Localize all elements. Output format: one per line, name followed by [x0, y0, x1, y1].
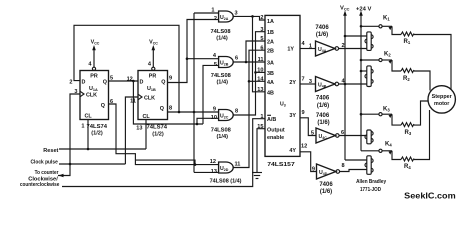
svg-text:6: 6: [110, 99, 113, 105]
svg-text:74LS08 (1/4): 74LS08 (1/4): [210, 179, 242, 185]
svg-text:1: 1: [81, 124, 84, 130]
svg-text:K4: K4: [385, 141, 392, 147]
svg-text:CLK: CLK: [86, 93, 97, 99]
svg-text:PR: PR: [90, 74, 98, 80]
svg-text:11: 11: [130, 99, 136, 105]
svg-text:9: 9: [169, 76, 172, 82]
svg-text:R4: R4: [404, 164, 411, 170]
svg-text:8: 8: [169, 106, 172, 112]
svg-text:Q: Q: [161, 79, 165, 85]
svg-text:2: 2: [342, 43, 345, 49]
svg-text:1: 1: [309, 43, 312, 49]
svg-text:3: 3: [260, 27, 263, 33]
svg-text:1Y: 1Y: [287, 46, 294, 52]
svg-text:K3: K3: [383, 107, 390, 113]
svg-text:3Y: 3Y: [289, 113, 296, 119]
svg-text:5: 5: [110, 76, 113, 82]
svg-text:3: 3: [235, 11, 238, 17]
svg-text:2: 2: [69, 79, 72, 85]
svg-text:8: 8: [235, 109, 238, 115]
svg-text:3B: 3B: [267, 71, 274, 77]
svg-text:11: 11: [258, 57, 264, 63]
svg-text:12: 12: [301, 143, 307, 149]
svg-text:(1/6): (1/6): [317, 120, 329, 126]
svg-text:3: 3: [309, 79, 312, 85]
svg-text:2B: 2B: [267, 49, 274, 55]
svg-text:15: 15: [257, 124, 263, 130]
svg-text:(1/6): (1/6): [316, 32, 328, 38]
svg-text:CL: CL: [85, 114, 93, 120]
svg-text:7406: 7406: [319, 182, 333, 188]
svg-text:5: 5: [260, 36, 263, 42]
svg-text:R2: R2: [403, 76, 410, 82]
svg-text:13: 13: [257, 87, 263, 93]
svg-text:Output: Output: [267, 128, 285, 134]
svg-text:K1: K1: [383, 16, 390, 22]
svg-text:(1/4): (1/4): [216, 80, 228, 86]
svg-text:Q: Q: [103, 79, 107, 85]
svg-text:4B: 4B: [267, 90, 274, 96]
svg-text:3A: 3A: [267, 61, 274, 67]
svg-text:(1/6): (1/6): [320, 189, 332, 195]
svg-text:74LS157: 74LS157: [267, 162, 294, 168]
svg-text:7406: 7406: [315, 25, 329, 31]
svg-text:2: 2: [214, 16, 217, 22]
svg-text:6: 6: [260, 45, 263, 51]
svg-text:12: 12: [210, 159, 216, 165]
svg-text:Clock pulse: Clock pulse: [31, 159, 59, 165]
svg-text:74LS74: 74LS74: [87, 124, 108, 130]
svg-text:(1/4): (1/4): [216, 36, 228, 42]
svg-text:5: 5: [311, 130, 314, 136]
svg-text:(1/4): (1/4): [216, 134, 228, 140]
svg-text:2: 2: [260, 15, 263, 21]
svg-text:PR: PR: [149, 74, 157, 80]
svg-text:1: 1: [260, 114, 263, 120]
svg-text:Reset: Reset: [43, 148, 58, 154]
svg-text:7406: 7406: [316, 96, 330, 102]
svg-text:(1/2): (1/2): [152, 131, 164, 137]
svg-text:13: 13: [211, 169, 217, 175]
svg-text:CL: CL: [143, 114, 151, 120]
svg-text:To counter: To counter: [35, 170, 59, 176]
svg-text:10: 10: [211, 115, 217, 121]
svg-text:1B: 1B: [267, 30, 274, 36]
svg-text:+24 V: +24 V: [356, 7, 371, 13]
svg-text:Q: Q: [160, 106, 164, 112]
svg-text:Stepper: Stepper: [432, 94, 453, 100]
svg-text:7: 7: [302, 76, 305, 82]
svg-text:Allen Bradley: Allen Bradley: [356, 179, 387, 185]
svg-text:motor: motor: [434, 101, 450, 107]
svg-text:74LS74: 74LS74: [147, 124, 168, 130]
svg-text:5: 5: [214, 62, 217, 68]
svg-text:D: D: [82, 79, 86, 85]
svg-text:3: 3: [74, 89, 77, 95]
svg-text:6: 6: [235, 55, 238, 61]
svg-text:SeekIC.com: SeekIC.com: [404, 191, 456, 201]
svg-text:1771-JOD: 1771-JOD: [360, 187, 381, 193]
svg-text:9: 9: [312, 166, 315, 172]
svg-text:2A: 2A: [267, 40, 274, 46]
svg-text:9: 9: [213, 107, 216, 113]
svg-text:R3: R3: [405, 130, 412, 136]
svg-text:counterclockwise: counterclockwise: [20, 182, 60, 188]
svg-text:10: 10: [257, 68, 263, 74]
svg-text:6: 6: [341, 130, 344, 136]
svg-text:7406: 7406: [316, 113, 330, 119]
svg-text:A/B: A/B: [267, 117, 276, 123]
svg-text:CLK: CLK: [144, 96, 155, 102]
svg-text:VCC: VCC: [340, 6, 350, 12]
svg-text:4Y: 4Y: [289, 148, 296, 154]
svg-text:4A: 4A: [267, 80, 274, 86]
svg-text:2Y: 2Y: [289, 80, 296, 86]
svg-text:Q: Q: [101, 103, 105, 109]
svg-text:1A: 1A: [267, 19, 274, 25]
svg-text:(1/2): (1/2): [91, 131, 103, 137]
svg-text:14: 14: [257, 77, 264, 83]
svg-text:12: 12: [127, 77, 133, 83]
svg-text:1: 1: [211, 7, 214, 13]
svg-text:11: 11: [235, 162, 241, 168]
svg-text:13: 13: [136, 126, 142, 132]
svg-text:D: D: [140, 79, 144, 85]
svg-text:74LS08: 74LS08: [211, 128, 231, 134]
svg-text:K2: K2: [384, 51, 391, 57]
svg-text:R1: R1: [404, 39, 411, 45]
svg-text:9: 9: [302, 110, 305, 116]
svg-text:enable: enable: [267, 135, 284, 141]
svg-text:(1/6): (1/6): [317, 103, 329, 109]
svg-text:74LS08: 74LS08: [211, 73, 231, 79]
svg-text:8: 8: [342, 163, 345, 169]
svg-text:74LS08: 74LS08: [211, 29, 231, 35]
